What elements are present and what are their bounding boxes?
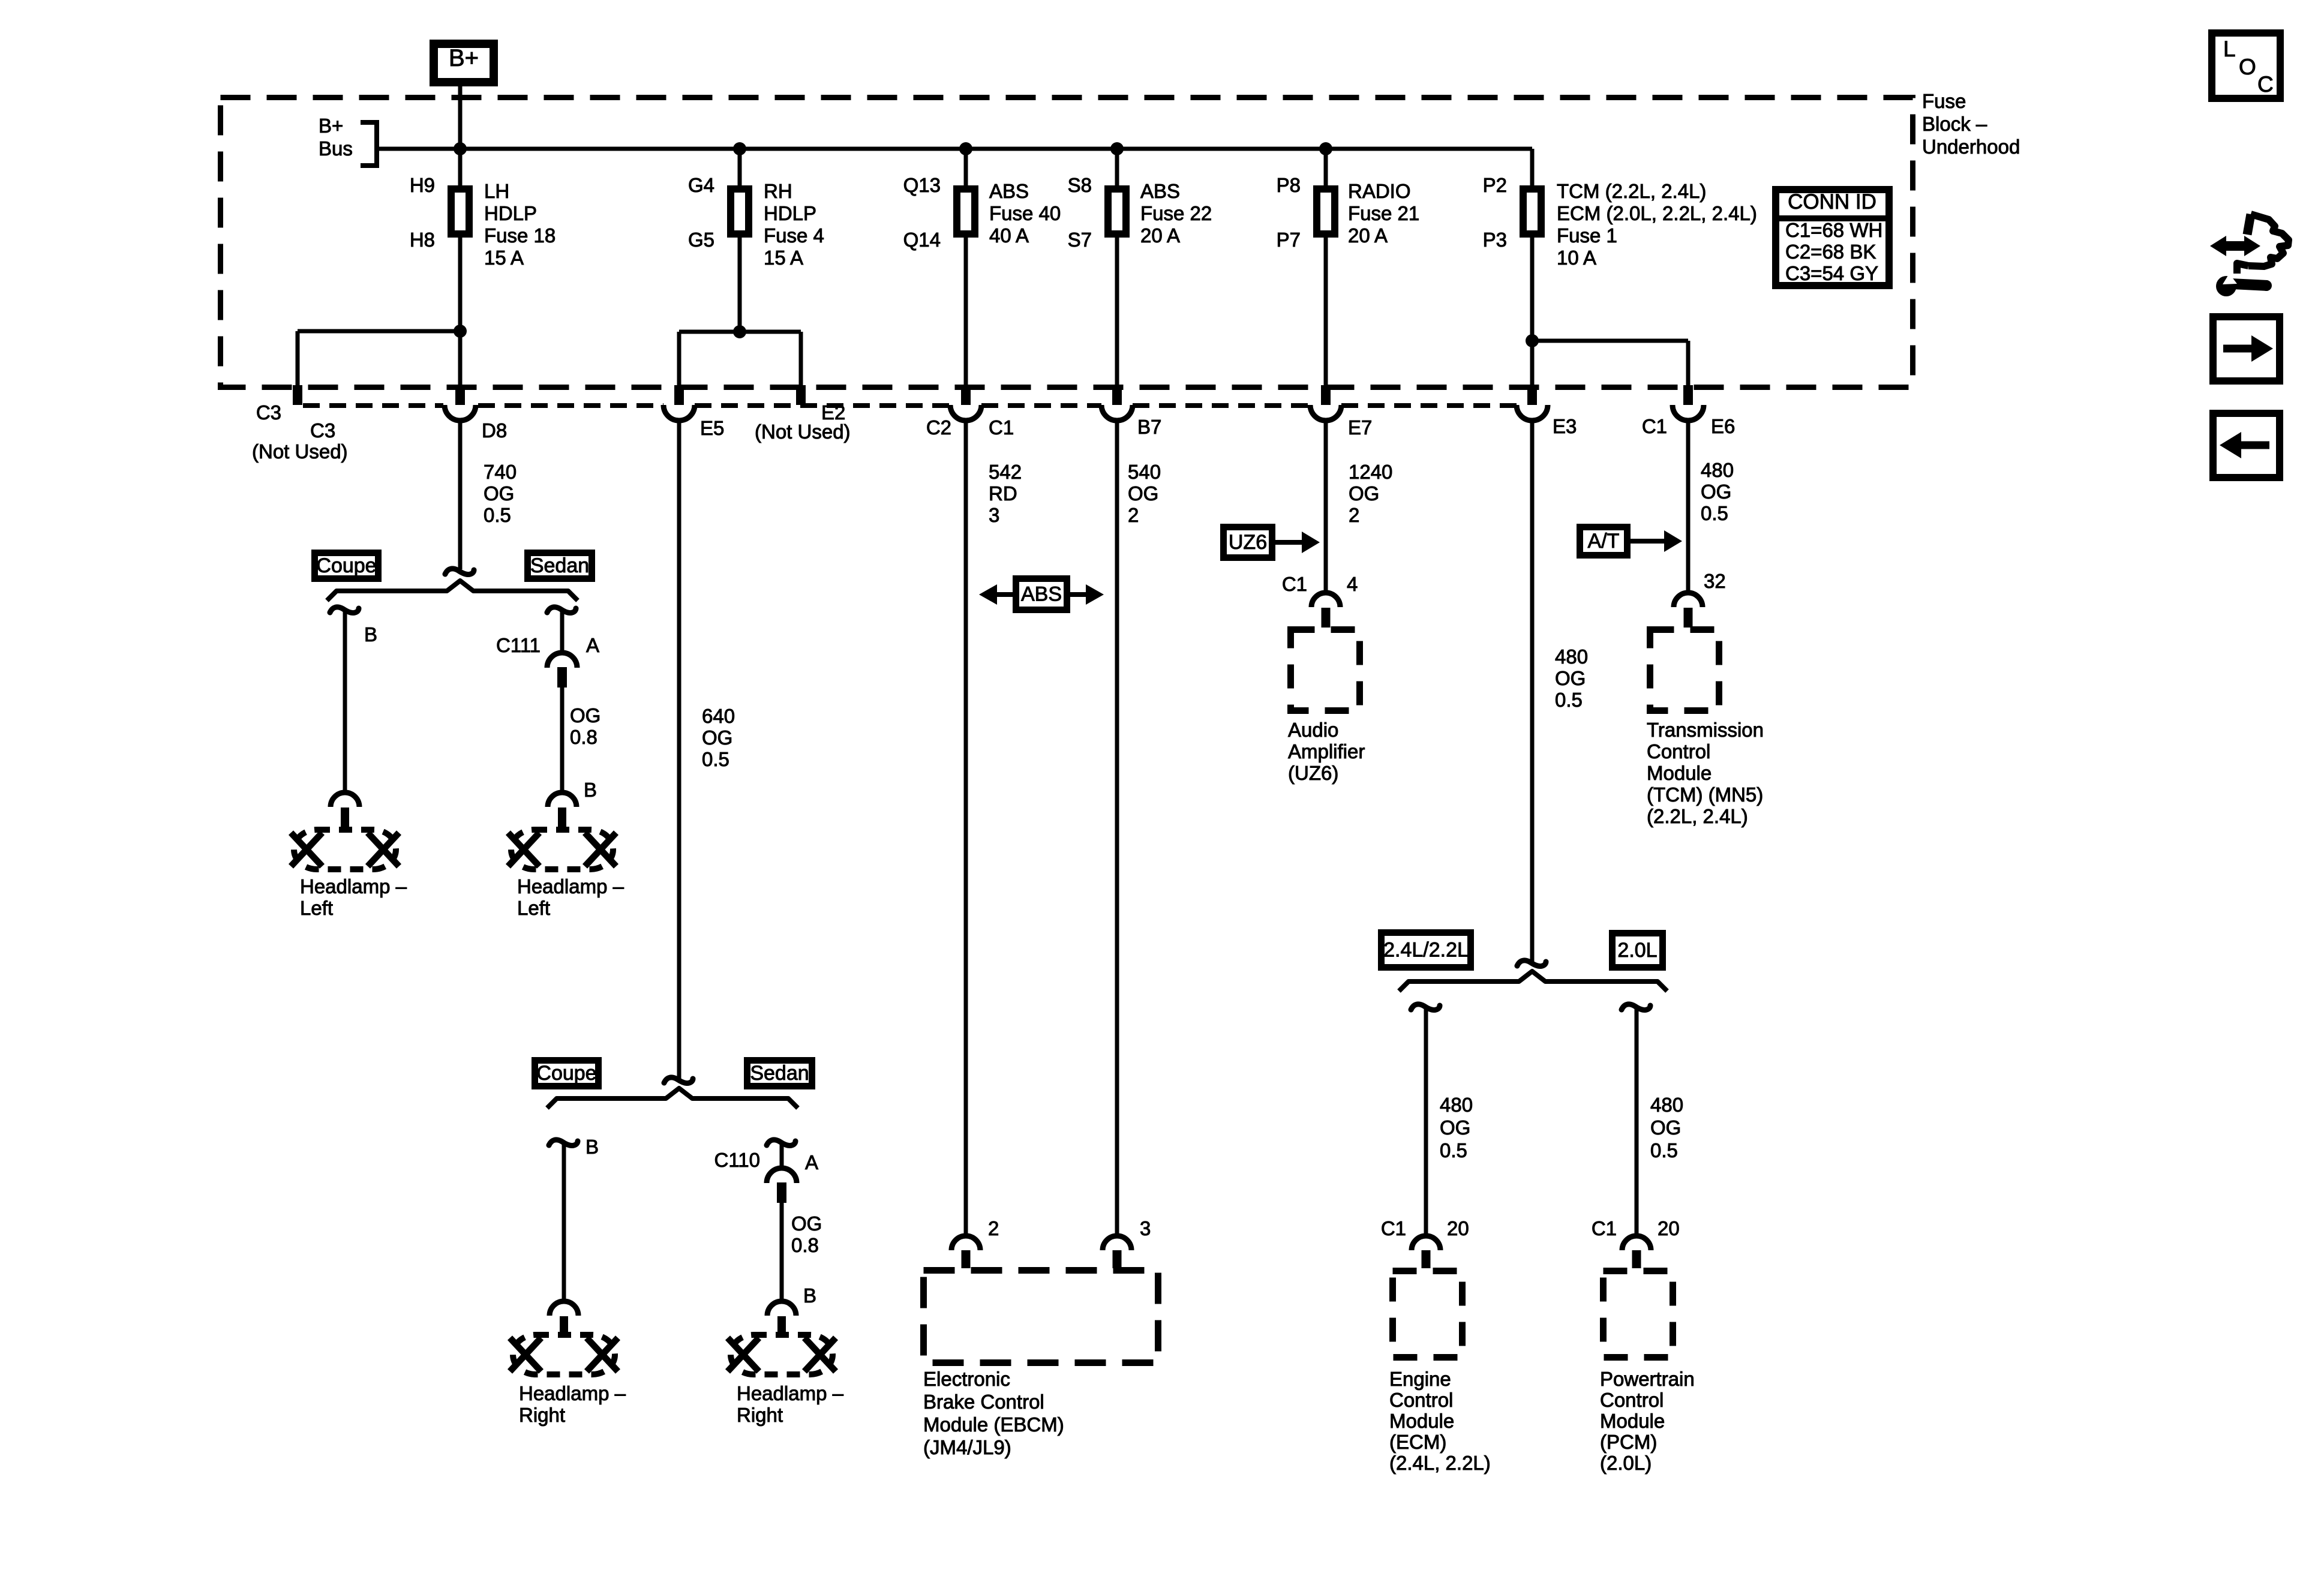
svg-text:H9: H9 — [410, 174, 435, 196]
svg-text:20 A: 20 A — [1348, 224, 1388, 247]
svg-text:(2.4L, 2.2L): (2.4L, 2.2L) — [1389, 1452, 1491, 1474]
svg-text:Module (EBCM): Module (EBCM) — [923, 1413, 1064, 1436]
svg-text:E7: E7 — [1348, 416, 1372, 439]
svg-text:10 A: 10 A — [1557, 247, 1596, 269]
svg-text:RH: RH — [764, 180, 792, 202]
svg-text:0.5: 0.5 — [1701, 502, 1728, 524]
svg-text:Headlamp –: Headlamp – — [737, 1382, 844, 1404]
svg-text:OG: OG — [1128, 482, 1158, 505]
svg-text:LH: LH — [484, 180, 509, 202]
svg-text:542: 542 — [989, 461, 1022, 483]
svg-text:OG: OG — [791, 1212, 822, 1235]
svg-text:Control: Control — [1647, 740, 1710, 763]
svg-text:0.5: 0.5 — [1440, 1139, 1467, 1161]
svg-text:Module: Module — [1389, 1410, 1454, 1432]
svg-text:C3: C3 — [310, 419, 335, 442]
svg-text:ABS: ABS — [1021, 583, 1062, 606]
svg-text:(Not Used): (Not Used) — [755, 421, 851, 443]
svg-text:Audio: Audio — [1288, 719, 1338, 741]
svg-text:OG: OG — [570, 704, 600, 727]
svg-text:G4: G4 — [688, 174, 714, 196]
svg-text:Headlamp –: Headlamp – — [300, 875, 407, 897]
svg-text:1240: 1240 — [1349, 461, 1392, 483]
svg-text:2: 2 — [1128, 504, 1139, 526]
svg-text:C3=54 GY: C3=54 GY — [1785, 262, 1878, 284]
svg-text:E5: E5 — [700, 417, 724, 439]
svg-text:0.5: 0.5 — [484, 504, 511, 526]
svg-text:RADIO: RADIO — [1348, 180, 1411, 202]
svg-text:A: A — [805, 1151, 818, 1173]
svg-text:Powertrain: Powertrain — [1600, 1368, 1695, 1390]
svg-text:Fuse: Fuse — [1922, 90, 1966, 112]
svg-text:A: A — [586, 634, 599, 656]
svg-text:C: C — [2257, 72, 2274, 97]
svg-text:B: B — [585, 1136, 599, 1158]
svg-text:Sedan: Sedan — [750, 1062, 809, 1085]
svg-text:H8: H8 — [410, 229, 435, 251]
svg-text:480: 480 — [1701, 459, 1734, 481]
svg-text:540: 540 — [1128, 461, 1161, 483]
svg-text:L: L — [2223, 37, 2236, 61]
svg-text:2.4L/2.2L: 2.4L/2.2L — [1383, 939, 1469, 962]
svg-text:OG: OG — [1701, 481, 1731, 503]
svg-text:B: B — [584, 779, 597, 801]
svg-text:740: 740 — [484, 461, 517, 483]
svg-text:(PCM): (PCM) — [1600, 1431, 1657, 1453]
svg-text:3: 3 — [989, 504, 999, 526]
svg-text:0.5: 0.5 — [1555, 689, 1583, 711]
svg-text:B+: B+ — [449, 45, 479, 71]
svg-text:15 A: 15 A — [764, 247, 803, 269]
svg-text:Block –: Block – — [1922, 113, 1987, 135]
svg-text:P2: P2 — [1483, 174, 1507, 196]
svg-text:Module: Module — [1647, 762, 1712, 784]
svg-text:Fuse 22: Fuse 22 — [1140, 202, 1212, 224]
svg-text:3: 3 — [1140, 1217, 1151, 1239]
svg-text:Engine: Engine — [1389, 1368, 1451, 1390]
svg-text:Bus: Bus — [319, 137, 353, 160]
svg-text:(2.2L, 2.4L): (2.2L, 2.4L) — [1647, 805, 1748, 827]
svg-text:G5: G5 — [688, 229, 714, 251]
svg-text:B: B — [803, 1284, 816, 1307]
svg-text:32: 32 — [1704, 570, 1726, 592]
svg-text:RD: RD — [989, 482, 1017, 505]
svg-text:C3: C3 — [256, 401, 281, 424]
svg-text:Amplifier: Amplifier — [1288, 740, 1365, 763]
svg-text:OG: OG — [702, 727, 732, 749]
svg-text:2: 2 — [1349, 504, 1359, 526]
svg-text:S7: S7 — [1068, 229, 1092, 251]
svg-text:Left: Left — [300, 897, 333, 919]
svg-text:Module: Module — [1600, 1410, 1665, 1432]
svg-text:CONN ID: CONN ID — [1788, 190, 1876, 214]
svg-text:Left: Left — [517, 897, 550, 919]
svg-text:A/T: A/T — [1588, 530, 1620, 553]
svg-text:Transmission: Transmission — [1647, 719, 1764, 741]
svg-text:ABS: ABS — [1140, 180, 1180, 202]
svg-text:2: 2 — [988, 1217, 999, 1239]
svg-text:O: O — [2239, 55, 2256, 79]
svg-text:Coupe: Coupe — [316, 554, 376, 577]
svg-text:Electronic: Electronic — [923, 1368, 1010, 1390]
svg-text:S8: S8 — [1068, 174, 1092, 196]
svg-text:15 A: 15 A — [484, 247, 524, 269]
svg-text:ECM (2.0L, 2.2L, 2.4L): ECM (2.0L, 2.2L, 2.4L) — [1557, 202, 1757, 224]
svg-text:Underhood: Underhood — [1922, 136, 2020, 158]
svg-text:C1: C1 — [1282, 573, 1307, 595]
svg-text:E3: E3 — [1553, 415, 1577, 437]
svg-text:Fuse 40: Fuse 40 — [989, 202, 1061, 224]
svg-text:20 A: 20 A — [1140, 224, 1180, 247]
svg-text:0.5: 0.5 — [702, 748, 729, 770]
svg-text:(Not Used): (Not Used) — [252, 440, 348, 463]
svg-text:Right: Right — [519, 1404, 565, 1426]
svg-text:C1=68 WH: C1=68 WH — [1785, 219, 1882, 241]
svg-text:OG: OG — [1440, 1116, 1470, 1139]
svg-text:Fuse 18: Fuse 18 — [484, 224, 556, 247]
svg-text:Control: Control — [1600, 1389, 1664, 1411]
svg-text:P7: P7 — [1277, 229, 1301, 251]
svg-text:HDLP: HDLP — [484, 202, 537, 224]
svg-text:C1: C1 — [989, 416, 1014, 439]
svg-text:(ECM): (ECM) — [1389, 1431, 1446, 1453]
svg-text:Sedan: Sedan — [530, 554, 589, 577]
svg-text:(UZ6): (UZ6) — [1288, 762, 1338, 784]
svg-text:OG: OG — [1349, 482, 1379, 505]
svg-text:Fuse 4: Fuse 4 — [764, 224, 824, 247]
svg-text:Fuse 21: Fuse 21 — [1348, 202, 1419, 224]
svg-text:20: 20 — [1658, 1217, 1680, 1239]
svg-text:B7: B7 — [1137, 416, 1161, 438]
svg-text:OG: OG — [1650, 1116, 1681, 1139]
svg-text:Coupe: Coupe — [536, 1062, 596, 1085]
svg-text:HDLP: HDLP — [764, 202, 816, 224]
svg-text:E6: E6 — [1711, 415, 1735, 437]
svg-text:Q14: Q14 — [903, 229, 941, 251]
svg-text:0.8: 0.8 — [791, 1234, 819, 1256]
svg-text:480: 480 — [1650, 1094, 1683, 1116]
svg-text:C2: C2 — [926, 416, 951, 439]
svg-text:C2=68 BK: C2=68 BK — [1785, 241, 1876, 263]
svg-text:ABS: ABS — [989, 180, 1029, 202]
svg-text:C110: C110 — [714, 1149, 760, 1171]
svg-text:B: B — [364, 623, 377, 646]
svg-text:UZ6: UZ6 — [1229, 531, 1267, 554]
svg-text:P8: P8 — [1277, 174, 1301, 196]
svg-text:Fuse 1: Fuse 1 — [1557, 224, 1617, 247]
svg-text:2.0L: 2.0L — [1617, 939, 1657, 962]
svg-text:20: 20 — [1447, 1217, 1469, 1239]
svg-text:4: 4 — [1347, 573, 1358, 595]
svg-text:OG: OG — [484, 482, 514, 505]
svg-text:480: 480 — [1555, 646, 1588, 668]
svg-text:(TCM) (MN5): (TCM) (MN5) — [1647, 784, 1763, 806]
svg-text:Control: Control — [1389, 1389, 1453, 1411]
svg-text:Q13: Q13 — [903, 174, 941, 196]
svg-text:TCM (2.2L, 2.4L): TCM (2.2L, 2.4L) — [1557, 180, 1706, 202]
svg-text:D8: D8 — [482, 419, 507, 442]
svg-text:C111: C111 — [496, 634, 541, 656]
svg-text:(JM4/JL9): (JM4/JL9) — [923, 1436, 1011, 1458]
svg-text:Headlamp –: Headlamp – — [517, 875, 624, 897]
svg-text:B+: B+ — [319, 115, 343, 137]
svg-text:C1: C1 — [1642, 415, 1667, 437]
svg-text:Headlamp –: Headlamp – — [519, 1382, 626, 1404]
svg-text:480: 480 — [1440, 1094, 1473, 1116]
svg-text:0.5: 0.5 — [1650, 1139, 1678, 1161]
svg-text:Right: Right — [737, 1404, 783, 1426]
svg-text:C1: C1 — [1592, 1217, 1617, 1239]
svg-text:40 A: 40 A — [989, 224, 1029, 247]
svg-text:OG: OG — [1555, 667, 1586, 689]
svg-text:Brake Control: Brake Control — [923, 1391, 1044, 1413]
svg-text:C1: C1 — [1381, 1217, 1406, 1239]
svg-text:0.8: 0.8 — [570, 726, 597, 748]
svg-text:P3: P3 — [1483, 229, 1507, 251]
svg-text:(2.0L): (2.0L) — [1600, 1452, 1652, 1474]
svg-text:640: 640 — [702, 705, 735, 727]
